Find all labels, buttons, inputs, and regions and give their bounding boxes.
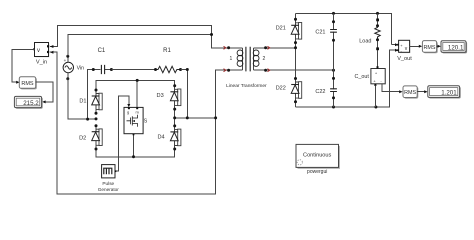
svg-text:215.2: 215.2 (23, 100, 39, 107)
wire C1 branch from left midpoint (88, 70, 94, 120)
svg-text:V_in: V_in (36, 60, 47, 66)
diode D22 (276, 77, 302, 103)
wire output bottom rail (296, 50, 396, 107)
wire C_out bottom to rail (374, 85, 376, 107)
display 120.1 (441, 41, 467, 54)
wire capacitor leg (333, 13, 335, 107)
svg-text:Generator: Generator (98, 187, 120, 192)
wire C1 to R1 (111, 69, 155, 71)
diode D21 (276, 18, 302, 44)
pulse generator (98, 165, 120, 192)
wire load leg (377, 13, 379, 66)
node: Vin top port (66, 55, 69, 58)
wire V_out to RMS3 (410, 45, 420, 47)
svg-text:V_out: V_out (397, 56, 412, 62)
diode D4 (157, 124, 180, 150)
mosfet S (124, 107, 148, 135)
svg-text:powergui: powergui (307, 169, 327, 175)
wire RMS1 to display 215.2 (36, 82, 54, 102)
capacitor C1 (92, 48, 113, 74)
voltage measurement V_in (33, 43, 49, 66)
svg-text:Load: Load (359, 39, 371, 45)
wire pulse generator to gate (115, 96, 129, 171)
svg-text:C1: C1 (98, 48, 106, 54)
svg-text:RMS: RMS (404, 90, 416, 96)
svg-text:2: 2 (263, 56, 266, 62)
svg-text:C21: C21 (315, 30, 325, 36)
diode D1 (79, 89, 102, 115)
RMS block RMS3 (422, 41, 437, 54)
svg-text:RMS: RMS (424, 45, 436, 51)
wire V_in+ sense to transformer primary top (50, 26, 226, 48)
RMS block RMS2 (403, 86, 418, 99)
resistor Load (359, 19, 380, 51)
svg-text:1.201: 1.201 (441, 90, 457, 97)
wire bridge right midpoint rail (175, 110, 216, 126)
linear transformer (224, 46, 271, 89)
svg-text:RMS: RMS (21, 81, 34, 87)
svg-text:Linear Transformer: Linear Transformer (226, 83, 267, 89)
wire secondary top to diode leg (271, 47, 296, 49)
wire bridge top rail (96, 80, 175, 90)
wire R1 to bridge right midpoint (181, 70, 188, 118)
svg-text:D3: D3 (157, 93, 164, 99)
capacitor C21 (315, 20, 338, 41)
display 1.201 (428, 86, 461, 99)
wire C_out signal to RMS2 (382, 84, 400, 92)
svg-text:Pulse: Pulse (102, 181, 114, 186)
wire V_in- return loop to transformer primary bottom (50, 52, 226, 194)
svg-text:C_out: C_out (355, 74, 370, 80)
svg-text:g: g (127, 110, 129, 115)
capacitor C22 (315, 77, 338, 100)
wire output top rail (296, 13, 392, 44)
wire bridge bottom rail (96, 149, 175, 157)
wire Vin top to sense node (68, 35, 212, 57)
current measurement C_out (355, 66, 386, 86)
svg-text:D21: D21 (276, 25, 286, 31)
wire RMS2 to display 1.201 (417, 91, 424, 93)
junction C1 branch (86, 118, 89, 121)
svg-text:S: S (144, 118, 148, 124)
svg-text:Continuous: Continuous (303, 152, 332, 158)
powergui block (296, 144, 340, 175)
display 215.2 (14, 96, 42, 108)
wire RMS3 to display 120.1 (437, 45, 438, 47)
wire mosfet drain (136, 80, 138, 107)
RMS block RMS1 (19, 77, 37, 90)
wire diode leg (295, 13, 297, 107)
svg-text:D1: D1 (79, 99, 86, 105)
junction bridge left midpoint (95, 117, 98, 120)
svg-text:D22: D22 (276, 85, 286, 91)
wire secondary bottom to capacitor leg (271, 69, 334, 71)
wire V_in output to RMS1 (12, 49, 35, 82)
voltage measurement V_out (397, 40, 412, 62)
svg-text:Vin: Vin (77, 65, 85, 71)
AC voltage source Vin (63, 56, 84, 78)
svg-text:D2: D2 (79, 136, 86, 142)
svg-text:v: v (37, 48, 40, 54)
svg-text:R1: R1 (163, 48, 171, 54)
svg-text:+: + (64, 58, 67, 63)
resistor R1 (154, 48, 182, 73)
svg-text:D4: D4 (157, 134, 164, 140)
wire Vin bottom to bridge left midpoint (68, 79, 96, 119)
junction sense node (210, 33, 213, 36)
wire mosfet source (133, 134, 135, 157)
diode D2 (79, 124, 102, 150)
diode D3 (157, 84, 181, 110)
svg-text:1: 1 (230, 56, 233, 62)
node: Vin bottom port (66, 77, 69, 80)
svg-text:120.1: 120.1 (448, 45, 464, 52)
svg-text:C22: C22 (315, 89, 325, 95)
